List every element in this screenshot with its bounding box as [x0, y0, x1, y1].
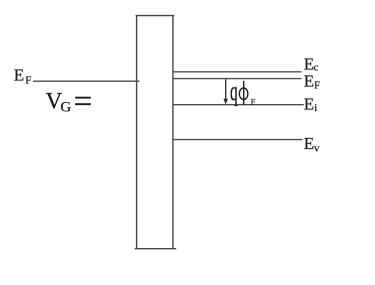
- svg-text:v: v: [314, 142, 320, 154]
- node Ev: valence band line: [173, 139, 303, 141]
- svg-text:q: q: [230, 75, 238, 106]
- arrow: qphiF down arrow: [223, 79, 228, 104]
- svg-text:E: E: [14, 65, 24, 84]
- label Ei: [304, 94, 317, 114]
- node Ei: intrinsic level line: [173, 104, 304, 106]
- label EF (semiconductor): [304, 71, 320, 91]
- oxide barrier rectangle: [135, 15, 177, 249]
- svg-text:E: E: [304, 134, 314, 153]
- label VG =: [46, 84, 93, 120]
- svg-text:E: E: [304, 71, 314, 90]
- svg-text:=: =: [74, 84, 93, 120]
- svg-text:F: F: [25, 74, 31, 86]
- svg-text:c: c: [314, 63, 319, 74]
- label Ec: [304, 55, 319, 74]
- label EF (left gate): [14, 65, 32, 86]
- wire: gate Fermi-level line (left): [33, 80, 140, 82]
- node Ec: conduction band line: [173, 71, 302, 73]
- svg-text:G: G: [60, 100, 71, 116]
- svg-text:F: F: [314, 80, 320, 91]
- svg-text:E: E: [304, 94, 314, 113]
- svg-text:F: F: [251, 97, 256, 107]
- svg-text:i: i: [314, 102, 317, 114]
- symbol phi: [239, 81, 248, 105]
- node EF: semiconductor Fermi level line: [173, 78, 302, 80]
- label Ev: [304, 134, 320, 154]
